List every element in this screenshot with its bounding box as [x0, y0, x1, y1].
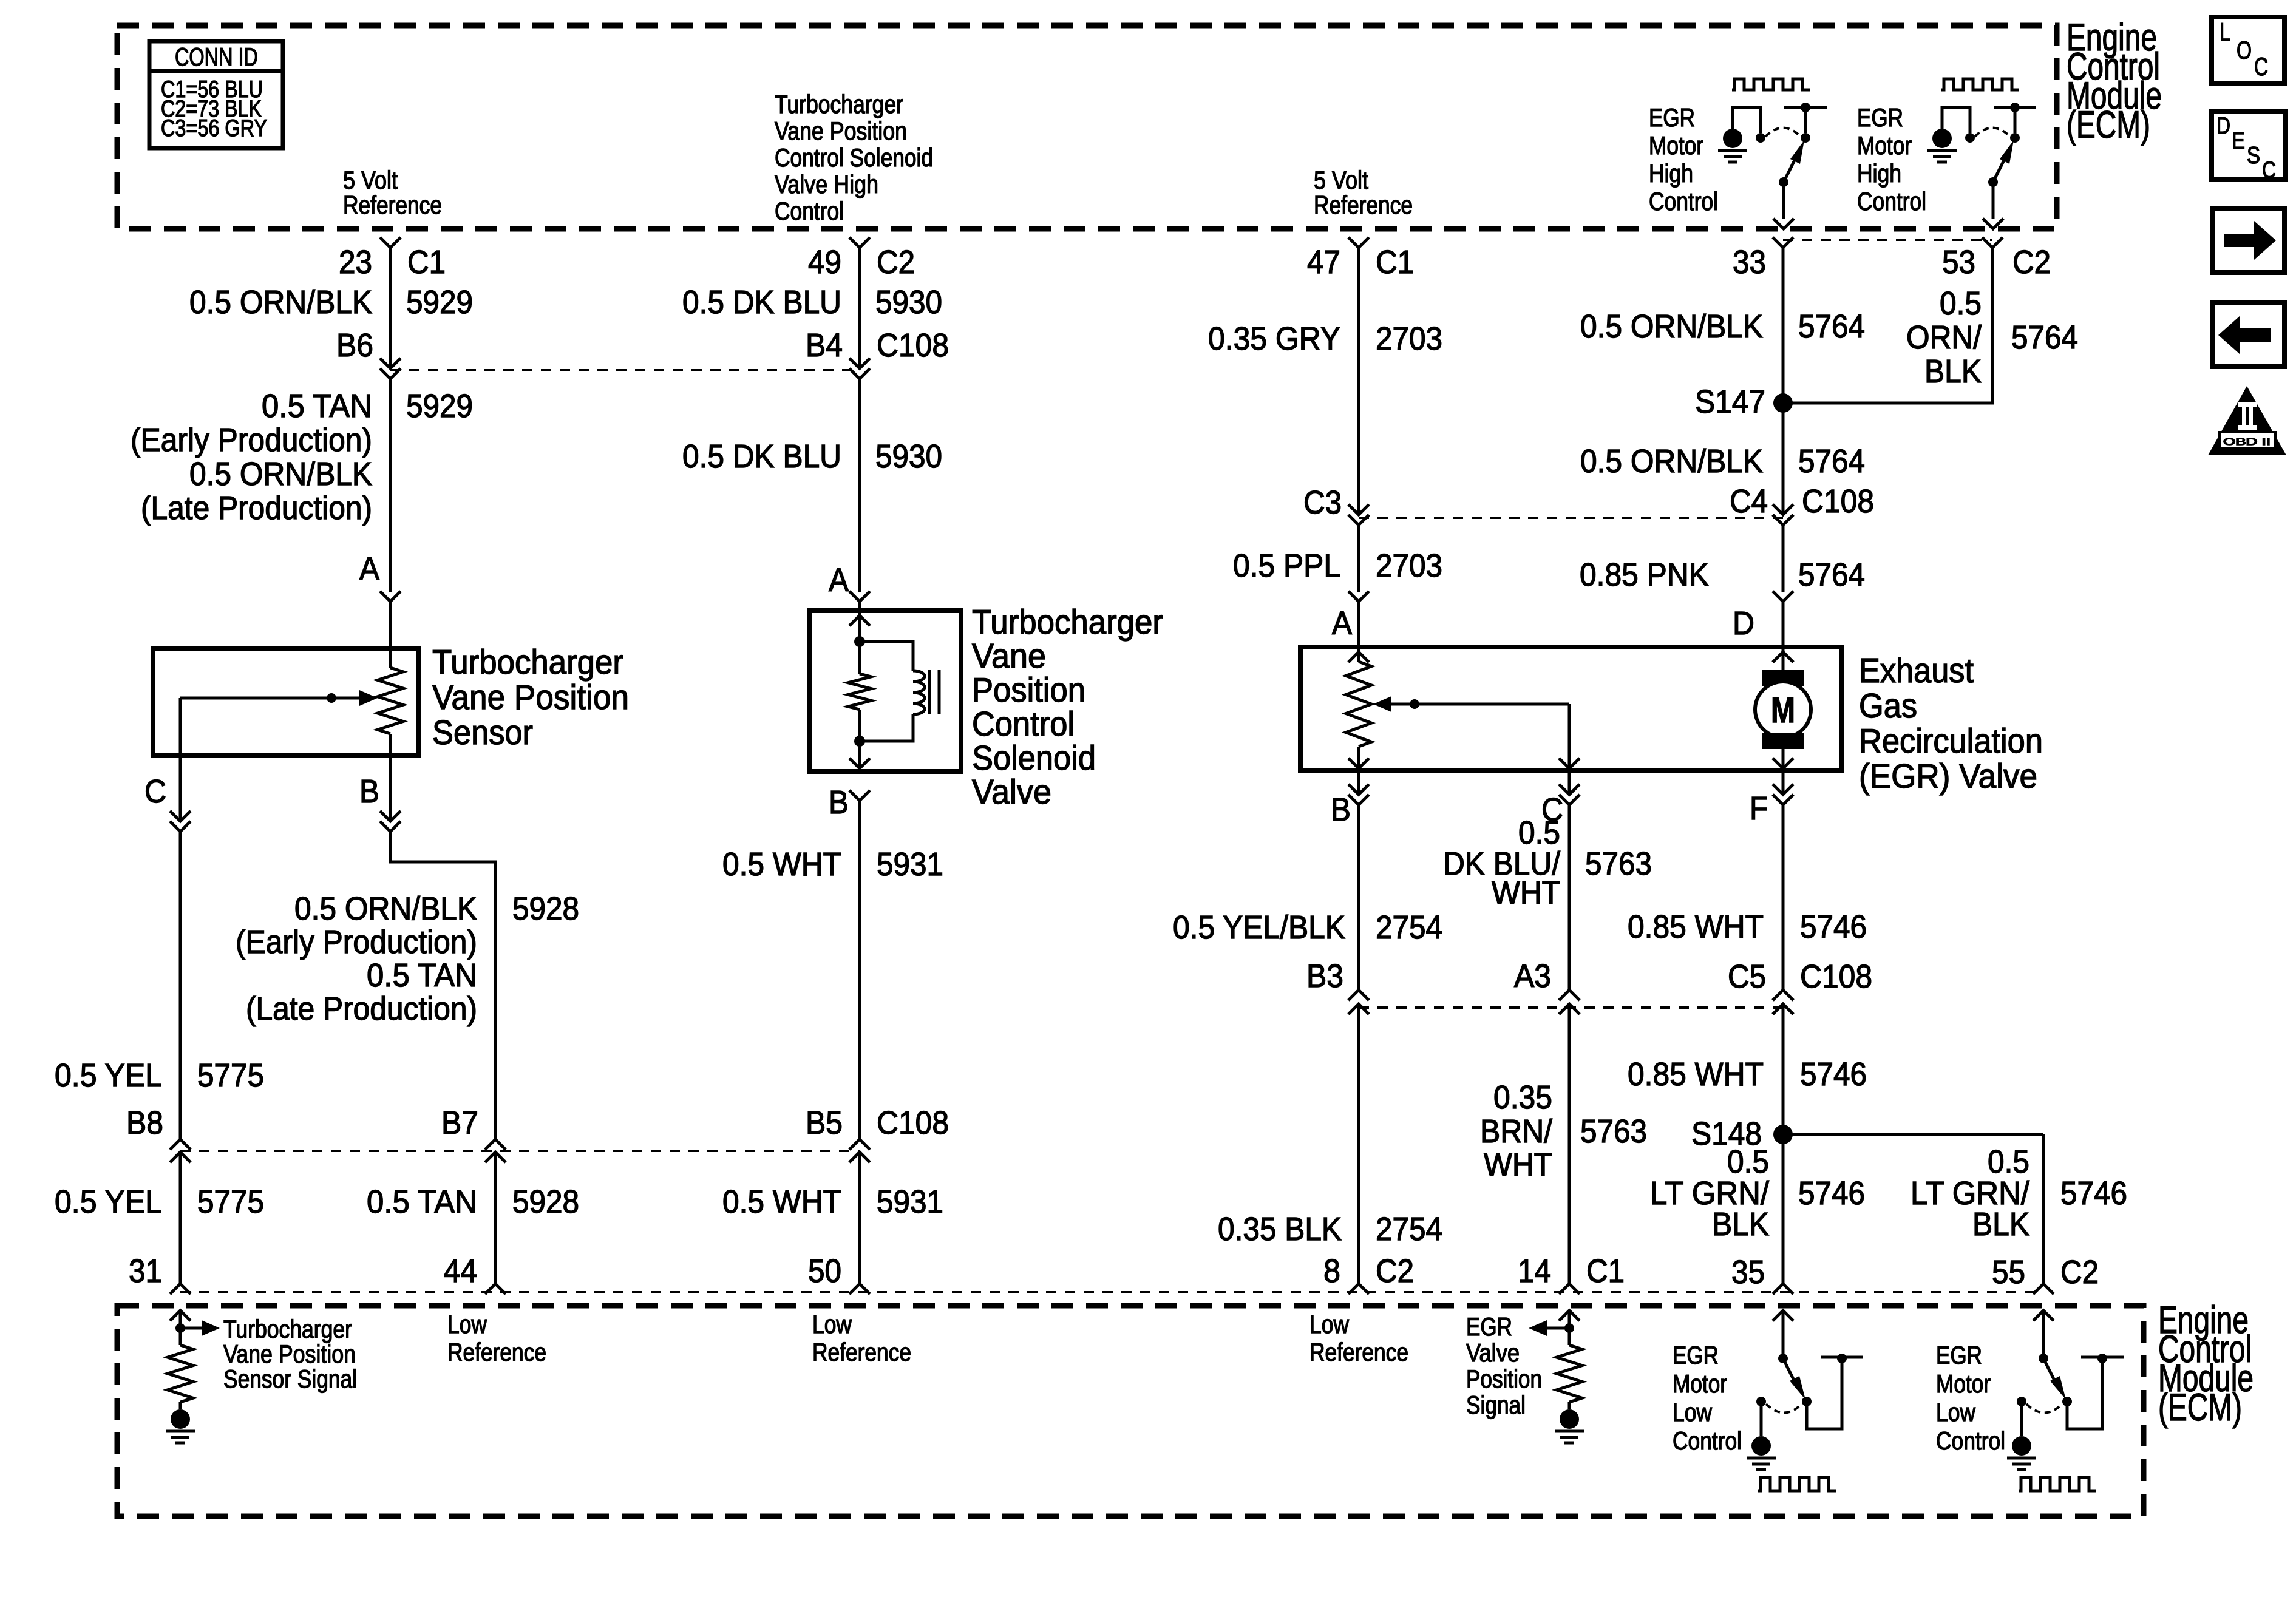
output T-bar [1821, 1356, 1863, 1359]
svg-text:5928: 5928 [512, 890, 579, 927]
contact dot (output side) [2010, 133, 2020, 143]
svg-text:EGR: EGR [1936, 1341, 1982, 1369]
C108 connector row B8/B7/B5 (upward) [170, 1139, 191, 1150]
junction dot pin 14 [1564, 1323, 1574, 1333]
ECM pin fork 8 [1348, 1284, 1369, 1294]
contact dot (output side) [1801, 133, 1810, 143]
EGR wiper arm with arrow [1373, 696, 1391, 712]
svg-text:B4: B4 [806, 327, 843, 364]
solenoid internal down arrow [858, 741, 861, 768]
ground symbol [2012, 1436, 2031, 1456]
Turbocharger Vane Position Sensor box [153, 648, 418, 755]
C108 dashed line bottom left [180, 1150, 860, 1152]
svg-text:2754: 2754 [1376, 1211, 1442, 1247]
connector fork at EGR pin A [1348, 591, 1369, 602]
EGR internal down arrow at C [1559, 758, 1580, 768]
C108 connector fork+arrow (B3 upward) [1348, 990, 1369, 1000]
svg-text:0.5 YEL: 0.5 YEL [55, 1184, 162, 1220]
svg-text:0.5 TAN: 0.5 TAN [262, 388, 372, 424]
svg-text:B3: B3 [1306, 958, 1343, 994]
connector fork at EGR pin C [1568, 771, 1571, 795]
svg-text:50: 50 [808, 1253, 841, 1289]
svg-text:CONN ID: CONN ID [175, 42, 258, 71]
wire ECM 49 to C108 [858, 248, 861, 368]
ECM pin forks 31/44/50 [170, 1284, 191, 1294]
svg-text:E: E [2232, 128, 2245, 154]
arm base dot [1988, 177, 1998, 187]
svg-text:2703: 2703 [1376, 320, 1442, 357]
svg-text:Motor: Motor [1649, 131, 1703, 160]
svg-text:0.5: 0.5 [1727, 1144, 1769, 1180]
svg-text:0.35 GRY: 0.35 GRY [1208, 320, 1340, 357]
contact dot (ground side) [1965, 133, 1975, 143]
solenoid top junction dot [854, 636, 865, 647]
svg-text:Solenoid: Solenoid [972, 739, 1096, 778]
contact dot (output side) [1802, 1397, 1812, 1406]
svg-text:44: 44 [444, 1253, 477, 1289]
svg-text:0.35: 0.35 [1493, 1079, 1552, 1116]
connector fork at ECM pin 33 [1773, 237, 1793, 248]
junction dot on T-bar [1801, 103, 1810, 112]
EGR potentiometer resistor [1346, 662, 1371, 747]
svg-text:5931: 5931 [877, 846, 943, 883]
svg-text:C2: C2 [2060, 1254, 2099, 1290]
svg-text:23: 23 [339, 244, 372, 280]
svg-text:S: S [2247, 143, 2260, 169]
svg-text:BRN/: BRN/ [1480, 1113, 1552, 1150]
thin dashed connector line top (C2) [1783, 239, 1992, 241]
connector fork at EGR pin F [1782, 771, 1785, 795]
svg-text:Low: Low [812, 1310, 852, 1338]
C108 connector fork+arrow (A3 upward) [1559, 990, 1580, 1000]
svg-text:C1: C1 [407, 244, 446, 280]
connector fork at ECM pin 47 [1348, 237, 1369, 248]
svg-text:0.5 ORN/BLK: 0.5 ORN/BLK [189, 456, 372, 492]
svg-text:BLK: BLK [1972, 1206, 2029, 1242]
sensor pin C connector arrow+fork [179, 755, 182, 821]
wire C5 down to S148 [1782, 1004, 1785, 1284]
arrow from border at EGR motor low pin [2033, 1310, 2054, 1321]
wire ground contact down to ground [2020, 1402, 2023, 1436]
svg-text:Control: Control [1936, 1426, 2005, 1455]
sensor pin B connector arrow+fork [389, 755, 392, 821]
dashed linkage arc [1765, 128, 1801, 137]
svg-text:Turbocharger: Turbocharger [972, 603, 1163, 642]
svg-text:(Late Production): (Late Production) [141, 490, 372, 526]
square wave symbol [2019, 1477, 2096, 1491]
svg-text:B: B [829, 784, 849, 821]
EGR wiper junction dot [1410, 699, 1419, 709]
svg-text:5764: 5764 [1798, 308, 1865, 345]
svg-text:5930: 5930 [875, 438, 942, 475]
svg-text:0.5 YEL: 0.5 YEL [55, 1057, 162, 1094]
svg-text:A: A [1332, 605, 1352, 642]
solenoid coil branch [860, 642, 913, 671]
svg-text:8: 8 [1323, 1253, 1340, 1289]
svg-text:C3: C3 [1303, 484, 1342, 521]
svg-text:M: M [1771, 691, 1795, 730]
svg-text:5930: 5930 [875, 284, 942, 320]
svg-text:0.85 PNK: 0.85 PNK [1580, 557, 1709, 593]
svg-text:Position: Position [972, 671, 1085, 710]
DESC icon box [2212, 111, 2285, 180]
svg-text:Valve: Valve [972, 773, 1051, 812]
svg-text:Low: Low [447, 1310, 487, 1338]
svg-text:B6: B6 [336, 327, 373, 364]
svg-text:Motor: Motor [1857, 131, 1912, 160]
svg-text:B8: B8 [126, 1105, 163, 1141]
switch arm with arrowhead [1993, 155, 2006, 182]
svg-text:5775: 5775 [197, 1057, 264, 1094]
wire C108 to solenoid A [858, 379, 861, 592]
svg-text:0.5 WHT: 0.5 WHT [722, 846, 841, 883]
svg-text:Control: Control [1673, 1426, 1742, 1455]
svg-text:Signal: Signal [1466, 1391, 1526, 1419]
EGR internal down arrow at B [1348, 758, 1369, 768]
svg-text:BLK: BLK [1924, 353, 1982, 390]
wires B8/B7/B5 to ECM pins [179, 1152, 182, 1284]
arm base dot [1778, 1354, 1788, 1363]
svg-text:Vane Position: Vane Position [775, 117, 907, 145]
Turbocharger Vane Position Control Solenoid Valve box [810, 611, 961, 771]
svg-text:WHT: WHT [1492, 875, 1560, 911]
wire ECM 47 to C3 [1357, 248, 1360, 515]
connector fork at EGR pin D [1773, 591, 1793, 602]
svg-text:55: 55 [1992, 1254, 2025, 1290]
svg-text:0.5 ORN/BLK: 0.5 ORN/BLK [1580, 443, 1763, 480]
svg-text:Control: Control [1649, 187, 1718, 215]
splice S147 [1773, 393, 1793, 413]
output T-bar [2081, 1356, 2124, 1359]
arrow to EGR label (left) [1547, 1327, 1569, 1330]
svg-text:EGR: EGR [1466, 1312, 1512, 1341]
svg-text:Gas: Gas [1859, 686, 1917, 725]
svg-text:49: 49 [808, 244, 841, 280]
svg-text:5763: 5763 [1580, 1113, 1647, 1150]
wire arm base down to ECM border [1992, 182, 1995, 219]
EGR wiper leg to pin C [1568, 704, 1571, 771]
svg-text:0.85 WHT: 0.85 WHT [1628, 909, 1764, 945]
solenoid internal up arrow [858, 611, 861, 642]
svg-text:0.5 ORN/BLK: 0.5 ORN/BLK [294, 890, 477, 927]
splice S148 [1773, 1125, 1793, 1144]
svg-text:(Early Production): (Early Production) [131, 422, 372, 458]
svg-text:Vane Position: Vane Position [223, 1340, 356, 1368]
solenoid core bars [928, 670, 931, 714]
svg-text:31: 31 [129, 1253, 162, 1289]
svg-text:Valve: Valve [1466, 1338, 1520, 1367]
svg-text:0.5: 0.5 [1940, 285, 1982, 322]
svg-text:0.5 DK BLU: 0.5 DK BLU [682, 438, 841, 475]
svg-text:ORN/: ORN/ [1906, 319, 1982, 356]
svg-text:C4: C4 [1730, 483, 1768, 520]
connector fork at solenoid pin B [849, 790, 870, 801]
switch arm with arrowhead [2043, 1358, 2057, 1385]
wire S148 branch to pin 55 [1783, 1133, 2043, 1136]
svg-text:0.5 PPL: 0.5 PPL [1233, 547, 1340, 584]
svg-text:2703: 2703 [1376, 547, 1442, 584]
arm base dot [1779, 177, 1788, 187]
svg-text:C108: C108 [1800, 958, 1872, 995]
svg-text:BLK: BLK [1712, 1206, 1769, 1242]
svg-text:0.5: 0.5 [1988, 1144, 2029, 1180]
svg-text:0.5 DK BLU: 0.5 DK BLU [682, 284, 841, 320]
svg-text:Motor: Motor [1936, 1369, 1991, 1398]
svg-text:0.5 ORN/BLK: 0.5 ORN/BLK [1580, 308, 1763, 345]
svg-text:33: 33 [1733, 244, 1766, 280]
arrow to Turbocharger label [180, 1327, 202, 1330]
OBD II triangle icon [2208, 386, 2286, 455]
wire L from ground to contact [1733, 107, 1761, 133]
wire L from ground to contact [1942, 107, 1970, 133]
wire EGR F down to C5 [1782, 805, 1785, 990]
svg-text:Vane Position: Vane Position [432, 678, 629, 717]
square wave symbol [1758, 1477, 1836, 1491]
svg-text:Low: Low [1673, 1398, 1713, 1426]
arm base dot [2039, 1354, 2048, 1363]
thin dashed connector line bottom [180, 1291, 2043, 1293]
svg-text:Control Solenoid: Control Solenoid [775, 143, 933, 172]
EGR motor high driver ground [1723, 129, 1742, 148]
C108 connector arrow+fork (B4) [849, 358, 870, 368]
svg-text:47: 47 [1307, 244, 1340, 280]
sensor wiper arm with arrow [180, 697, 359, 700]
svg-text:5764: 5764 [1798, 557, 1865, 593]
junction dot on T-bar [2097, 1354, 2107, 1363]
svg-text:5746: 5746 [2060, 1175, 2127, 1212]
svg-text:5764: 5764 [1798, 443, 1865, 480]
contact dot (ground side) [2017, 1397, 2026, 1406]
C108 connector arrow+fork (C4) [1773, 504, 1793, 515]
svg-text:A3: A3 [1514, 958, 1551, 994]
svg-text:35: 35 [1731, 1254, 1765, 1290]
wire A3 to ECM pin 14 [1568, 1004, 1571, 1284]
svg-text:Vane: Vane [972, 637, 1046, 676]
svg-text:5928: 5928 [512, 1184, 579, 1220]
dashed linkage arc [1975, 128, 2010, 137]
square wave symbol [1941, 79, 2019, 90]
wiper leg to pin C [179, 698, 182, 755]
svg-text:Low: Low [1936, 1398, 1976, 1426]
wire pin 33 down to S147 [1782, 248, 1785, 515]
connector fork at EGR pin B [1357, 771, 1360, 795]
svg-text:A: A [829, 562, 849, 598]
wire pin 53 down and left to S147 [1783, 248, 1992, 403]
C108 connector fork+arrow (C5 upward) [1773, 990, 1793, 1000]
C108 dashed line right [1359, 517, 1783, 519]
svg-text:Position: Position [1466, 1364, 1542, 1393]
svg-text:EGR: EGR [1673, 1341, 1719, 1369]
svg-text:(Late Production): (Late Production) [246, 991, 477, 1027]
svg-text:(ECM): (ECM) [2067, 104, 2150, 146]
svg-text:F: F [1750, 790, 1768, 827]
svg-text:S147: S147 [1695, 384, 1765, 420]
svg-text:C: C [2254, 52, 2268, 81]
Exhaust Gas Recirculation EGR Valve box [1300, 647, 1842, 771]
ECM pin 31 internal: sensor signal input [170, 1310, 191, 1321]
svg-text:(Early Production): (Early Production) [236, 924, 477, 960]
svg-text:B7: B7 [441, 1105, 478, 1141]
svg-text:5929: 5929 [406, 284, 473, 320]
svg-text:5763: 5763 [1585, 846, 1652, 882]
svg-text:L: L [2220, 18, 2230, 46]
junction dot on T-bar [1837, 1354, 1847, 1363]
ground pin 31 [171, 1409, 190, 1429]
wire ground contact down to ground [1760, 1402, 1763, 1436]
EGR motor M circle [1755, 682, 1811, 737]
wire EGR C down to A3 [1568, 805, 1571, 990]
svg-text:C108: C108 [877, 327, 949, 364]
right arrow icon box [2212, 208, 2284, 273]
output contact L wire to T-bar [2067, 1363, 2102, 1429]
svg-text:Reference: Reference [812, 1338, 911, 1366]
svg-text:0.5 WHT: 0.5 WHT [722, 1184, 841, 1220]
svg-text:O: O [2237, 36, 2252, 64]
connector fork at ECM pin 23 [380, 237, 401, 248]
contact dot (ground side) [1756, 1397, 1766, 1406]
ECM pin 14 internal: EGR valve position signal [1559, 1310, 1580, 1321]
svg-text:EGR: EGR [1857, 103, 1903, 132]
EGR motor M top brush [1762, 670, 1804, 686]
svg-text:0.5 TAN: 0.5 TAN [367, 957, 477, 994]
svg-text:Sensor Signal: Sensor Signal [223, 1364, 357, 1393]
EGR motor high driver ground [1932, 129, 1952, 148]
output T-bar [1994, 106, 2036, 109]
resistor pin 14 [1557, 1345, 1582, 1402]
C108 dashed line left [390, 369, 860, 371]
connector fork at sensor pin A [380, 591, 401, 602]
wire sensor B jog to x816 [390, 832, 495, 1139]
connector fork at solenoid pin A [849, 591, 870, 602]
wiper junction dot [327, 693, 336, 703]
svg-text:D: D [1733, 605, 1754, 642]
svg-text:C: C [2262, 157, 2276, 183]
svg-text:B5: B5 [806, 1105, 843, 1141]
wire EGR B down to B3 [1357, 805, 1360, 990]
svg-text:53: 53 [1942, 244, 1975, 280]
svg-text:5931: 5931 [877, 1184, 943, 1220]
svg-text:OBD II: OBD II [2223, 437, 2271, 447]
svg-text:C1: C1 [1586, 1253, 1625, 1289]
wire sensor C down to B8 [179, 832, 182, 1139]
svg-text:Reference: Reference [447, 1338, 546, 1366]
svg-text:5746: 5746 [1800, 909, 1867, 945]
svg-text:C3=56 GRY: C3=56 GRY [161, 115, 267, 141]
sensor potentiometer resistor [389, 648, 392, 668]
svg-text:EGR: EGR [1649, 103, 1695, 132]
svg-text:0.5 ORN/BLK: 0.5 ORN/BLK [189, 284, 372, 320]
svg-text:A: A [359, 551, 379, 587]
EGR motor M bottom brush [1762, 733, 1804, 749]
svg-text:Recirculation: Recirculation [1859, 722, 2043, 761]
C108 connector arrow+fork (C3) [1348, 504, 1369, 515]
solenoid bottom junction dot [854, 736, 865, 747]
wire solenoid B down to B5 [858, 801, 861, 1139]
svg-text:Control: Control [1857, 187, 1926, 215]
wire C108 to sensor A [389, 379, 392, 592]
wire C4 to EGR D [1782, 525, 1785, 592]
svg-text:0.85 WHT: 0.85 WHT [1628, 1056, 1764, 1093]
EGR internal up arrow at A [1357, 647, 1360, 662]
dashed linkage arc [2026, 1404, 2062, 1413]
wire B3 to ECM pin 8 [1357, 1004, 1360, 1284]
left arrow icon box [2212, 303, 2284, 367]
dashed linkage arc [1766, 1404, 1802, 1413]
square wave symbol [1732, 79, 1810, 90]
svg-text:2754: 2754 [1376, 909, 1442, 946]
svg-text:Reference: Reference [343, 191, 442, 219]
connector fork at ECM pin 49 [849, 237, 870, 248]
svg-text:Turbocharger: Turbocharger [432, 643, 623, 682]
svg-text:C: C [144, 773, 166, 810]
wire EGR D to motor [1782, 647, 1785, 670]
svg-text:5746: 5746 [1798, 1175, 1865, 1212]
ECM pin fork 14 [1559, 1284, 1580, 1294]
svg-text:Motor: Motor [1673, 1369, 1727, 1398]
svg-text:C1: C1 [1376, 244, 1414, 280]
ground pin 14 [1560, 1409, 1579, 1429]
output contact L wire to T-bar [1807, 1363, 1842, 1429]
svg-text:C108: C108 [1802, 483, 1874, 520]
svg-text:Turbocharger: Turbocharger [775, 90, 903, 118]
ground symbol [1751, 1436, 1771, 1456]
svg-text:(ECM): (ECM) [2158, 1386, 2242, 1429]
ECM top box (Engine Control Module) [117, 25, 2057, 229]
svg-text:Control: Control [775, 197, 844, 225]
svg-text:Reference: Reference [1314, 191, 1413, 219]
svg-text:High: High [1857, 159, 1901, 188]
svg-text:C2: C2 [877, 244, 915, 280]
svg-text:B: B [1331, 792, 1351, 828]
switch arm with arrowhead [1784, 155, 1797, 182]
wire down to arm base [2042, 1310, 2045, 1358]
svg-text:C2: C2 [2012, 244, 2051, 280]
wire C3 to EGR A [1357, 525, 1360, 592]
svg-text:5764: 5764 [2011, 319, 2078, 356]
svg-text:0.5 YEL/BLK: 0.5 YEL/BLK [1173, 909, 1345, 946]
wire arm base down to ECM border [1782, 182, 1785, 219]
svg-text:Control: Control [972, 705, 1075, 744]
svg-text:C2: C2 [1376, 1253, 1414, 1289]
CONN ID table [149, 41, 283, 148]
C108 dashed line mid right [1359, 1006, 1783, 1009]
svg-text:5 Volt: 5 Volt [343, 166, 398, 194]
contact dot (output side) [2062, 1397, 2072, 1406]
svg-text:High: High [1649, 159, 1693, 188]
svg-text:0.5 TAN: 0.5 TAN [367, 1184, 477, 1220]
LOC icon box [2212, 17, 2284, 84]
svg-text:Turbocharger: Turbocharger [223, 1315, 352, 1343]
wire ECM 23 to C108 [389, 248, 392, 368]
svg-text:14: 14 [1518, 1253, 1551, 1289]
svg-text:D: D [2216, 113, 2230, 139]
arrow into border [1773, 219, 1794, 229]
svg-text:C108: C108 [877, 1105, 949, 1141]
EGR internal down arrow at F [1773, 758, 1793, 768]
arrow into border [1983, 219, 2003, 229]
output T-bar [1784, 106, 1827, 109]
svg-text:B: B [359, 773, 379, 810]
resistor pin 31 [168, 1345, 193, 1402]
svg-text:(EGR) Valve: (EGR) Valve [1859, 757, 2037, 796]
svg-text:5746: 5746 [1800, 1056, 1867, 1093]
svg-text:5 Volt: 5 Volt [1314, 166, 1368, 194]
svg-text:Reference: Reference [1309, 1338, 1408, 1366]
svg-text:WHT: WHT [1484, 1147, 1552, 1183]
svg-text:C5: C5 [1728, 958, 1766, 995]
wire T-bar to contact [1804, 107, 1807, 133]
C108 connector arrow+fork (B6) [380, 358, 401, 368]
